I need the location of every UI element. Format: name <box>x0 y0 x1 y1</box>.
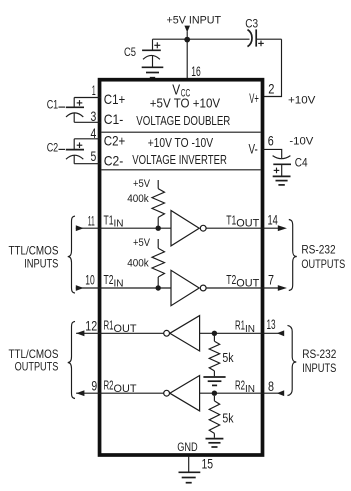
op-amp receiver R1 <box>164 316 200 351</box>
wire pin 5 <box>74 163 101 165</box>
resistor 5k R1 <box>209 336 220 376</box>
svg-text:OUTPUTS: OUTPUTS <box>301 257 345 271</box>
brace TTL/CMOS inputs <box>68 216 75 293</box>
svg-text:VOLTAGE INVERTER: VOLTAGE INVERTER <box>132 153 227 167</box>
wire pin 12 <box>76 332 164 334</box>
svg-text:INPUTS: INPUTS <box>302 361 336 375</box>
svg-text:V+: V+ <box>249 90 259 106</box>
svg-text:C3: C3 <box>245 18 258 30</box>
svg-text:13: 13 <box>267 316 276 332</box>
svg-text:4: 4 <box>91 125 97 141</box>
svg-text:400k: 400k <box>127 258 149 270</box>
svg-text:14: 14 <box>268 212 278 228</box>
svg-text:+5V: +5V <box>133 237 151 249</box>
wire pin 3 <box>74 121 101 123</box>
svg-text:-10V: -10V <box>289 135 314 147</box>
resistor 400k T2 <box>152 239 165 288</box>
brace RS-232 inputs <box>288 325 297 395</box>
divider inverter section <box>101 169 260 171</box>
svg-text:C2: C2 <box>47 142 59 154</box>
wire pin 9 <box>76 392 164 394</box>
svg-text:6: 6 <box>268 132 274 148</box>
arrow into pin 8 <box>277 390 284 396</box>
arrow out of pin 14 <box>278 225 287 231</box>
svg-text:+5V TO +10V: +5V TO +10V <box>150 97 221 111</box>
svg-text:5: 5 <box>91 148 97 164</box>
wire pin 13 <box>200 332 284 334</box>
wire pin 10 <box>76 287 171 289</box>
junction dot T2 input <box>156 285 161 290</box>
svg-text:11: 11 <box>88 212 95 228</box>
svg-text:V-: V- <box>249 141 259 157</box>
brace RS-232 outputs <box>289 220 297 291</box>
svg-text:RS-232: RS-232 <box>302 347 336 361</box>
svg-text:OUTPUTS: OUTPUTS <box>15 360 59 374</box>
svg-text:3: 3 <box>91 108 97 124</box>
node junction dot <box>184 37 190 43</box>
ground below C4 <box>273 176 291 185</box>
wire pin 16 <box>186 39 188 79</box>
divider doubler section <box>101 131 260 133</box>
ground below R2 5k <box>206 439 224 447</box>
svg-text:400k: 400k <box>127 193 149 205</box>
junction dot T1 input <box>156 226 161 231</box>
svg-text:+10V: +10V <box>288 95 316 107</box>
svg-text:C1+: C1+ <box>104 91 126 107</box>
junction dot R2 input <box>212 391 217 396</box>
capacitor C4 <box>273 156 291 176</box>
wire top rail left <box>153 38 250 40</box>
arrow out of pin 9 <box>76 390 84 396</box>
svg-text:5k: 5k <box>222 351 234 365</box>
svg-text:5k: 5k <box>222 411 234 425</box>
svg-text:15: 15 <box>202 456 214 472</box>
op-amp driver T1 <box>171 211 206 246</box>
svg-text:8: 8 <box>268 378 274 394</box>
junction dot R1 input <box>212 331 217 336</box>
arrow out of pin 12 <box>76 330 84 336</box>
svg-text:+5V INPUT: +5V INPUT <box>167 14 222 26</box>
wire pin 15 <box>188 456 190 472</box>
wire pin 8 <box>200 392 284 394</box>
wire pin 6 to C4 <box>262 149 282 158</box>
wire T2 output pin 7 <box>206 287 279 289</box>
svg-text:GND: GND <box>177 440 198 454</box>
svg-text:12: 12 <box>85 317 97 333</box>
svg-text:C2+: C2+ <box>104 133 126 149</box>
svg-text:+10V TO -10V: +10V TO -10V <box>148 135 214 150</box>
resistor 400k T1 <box>152 180 165 228</box>
svg-text:10: 10 <box>85 272 95 288</box>
svg-text:C5: C5 <box>124 47 136 59</box>
svg-text:RS-232: RS-232 <box>301 243 335 257</box>
IC body MAX232-type <box>100 80 263 455</box>
svg-text:C4: C4 <box>295 157 308 169</box>
svg-text:2: 2 <box>268 81 274 97</box>
wire pin 4 <box>74 138 101 140</box>
arrow out of pin 7 <box>278 285 287 291</box>
brace TTL/CMOS outputs <box>68 321 75 398</box>
wire pin 1 <box>74 97 101 99</box>
resistor 5k R2 <box>209 396 220 438</box>
svg-text:C2-: C2- <box>104 153 124 169</box>
svg-text:C1-: C1- <box>104 111 124 127</box>
wire pin 11 <box>76 227 171 229</box>
op-amp receiver R2 <box>164 376 200 411</box>
wire T1 output pin 14 <box>206 227 279 229</box>
ground below R1 5k <box>203 377 225 385</box>
capacitor C5 <box>142 39 161 67</box>
svg-text:16: 16 <box>191 63 201 79</box>
svg-text:7: 7 <box>268 271 274 287</box>
capacitor C2 <box>59 139 85 164</box>
wire top rail right <box>256 38 281 40</box>
arrow into +5V node <box>184 26 190 33</box>
arrow into pin 13 <box>277 330 284 336</box>
capacitor C1 <box>59 98 85 123</box>
wire down to pin 2 <box>262 39 282 96</box>
arrow into pin 10 <box>76 285 84 291</box>
arrow into pin 11 <box>76 225 84 231</box>
svg-text:C1: C1 <box>47 100 59 112</box>
capacitor C3 <box>248 29 264 46</box>
svg-text:VOLTAGE DOUBLER: VOLTAGE DOUBLER <box>136 113 230 128</box>
op-amp driver T2 <box>171 270 206 305</box>
ground below C5 <box>142 67 164 77</box>
svg-text:INPUTS: INPUTS <box>24 256 58 270</box>
ground pin 15 <box>179 472 201 482</box>
svg-text:1: 1 <box>92 82 96 98</box>
svg-text:9: 9 <box>91 378 97 394</box>
svg-text:+5V: +5V <box>133 178 151 190</box>
